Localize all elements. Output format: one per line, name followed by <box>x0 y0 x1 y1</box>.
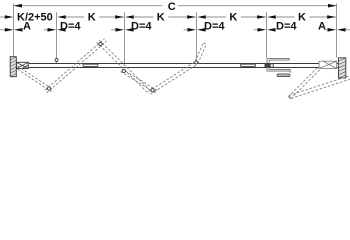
svg-text:D=4: D=4 <box>276 20 297 32</box>
fork center block <box>265 64 271 68</box>
panel segment S2 <box>45 39 107 93</box>
carriage on track 1 <box>83 64 98 66</box>
tick T4 x=196.5 <box>196 12 198 61</box>
tick T6 x=336.5 <box>336 4 338 58</box>
roller circle P3 below track <box>122 69 125 72</box>
svg-text:D=4: D=4 <box>131 20 152 32</box>
joint arrows at T4 row3 <box>184 28 206 32</box>
pivot right <box>319 61 337 68</box>
svg-text:K: K <box>229 12 237 24</box>
fork bottom arm <box>267 67 290 73</box>
svg-text:A: A <box>23 20 31 32</box>
panel segment S4 <box>121 69 159 94</box>
dimension K/2+50 outside arrow left <box>0 15 13 19</box>
panel segment S3 <box>97 40 152 93</box>
joint arrows at T5 row3 <box>254 28 276 32</box>
track bottom rail <box>16 67 338 69</box>
wall bracket right <box>338 58 345 78</box>
tick T2 x=56.5 <box>56 12 58 63</box>
svg-text:D=4: D=4 <box>204 20 225 32</box>
svg-text:D=4: D=4 <box>60 20 81 32</box>
joint arrows at T2 row3 <box>44 28 66 32</box>
dimension C line <box>14 4 337 8</box>
roller circle P5 on track <box>195 61 198 64</box>
tick T3 x=124 <box>124 12 126 63</box>
tick T5 x=266.5 <box>266 12 268 58</box>
svg-text:A: A <box>318 20 326 32</box>
panel segment S1 <box>18 66 54 92</box>
swing panel S8 <box>289 76 350 99</box>
dimension K 2 <box>125 15 195 19</box>
hinge circle P2 peak <box>99 42 102 45</box>
dimension K 3 <box>197 15 265 19</box>
hinge circle P4 valley <box>151 89 154 92</box>
hinge circle P1 <box>47 87 50 90</box>
swing panel S7 <box>288 68 319 99</box>
panel segment S5 <box>149 62 198 95</box>
lever bar below track right <box>277 74 290 77</box>
svg-text:K: K <box>157 12 165 24</box>
wall pivot left <box>17 62 29 68</box>
carriage on track 2 <box>241 64 256 66</box>
svg-text:K: K <box>88 12 96 24</box>
fork top arm <box>267 58 289 63</box>
tick T1 x=13.5 <box>13 4 15 57</box>
dimension K 4 <box>267 15 335 19</box>
fork pivot circle <box>270 64 273 67</box>
dimension A left arrows <box>0 28 23 32</box>
joint arrows at T3 row3 <box>111 28 134 32</box>
dimension A right arrows <box>325 28 350 32</box>
track top rail <box>16 63 338 65</box>
wall bracket left <box>10 57 16 77</box>
hinge circle top of track at T2 <box>55 59 58 62</box>
svg-text:C: C <box>168 1 176 13</box>
dimension K 1 <box>57 15 123 19</box>
svg-text:K: K <box>298 12 306 24</box>
panel segment S6 free end <box>195 43 206 64</box>
